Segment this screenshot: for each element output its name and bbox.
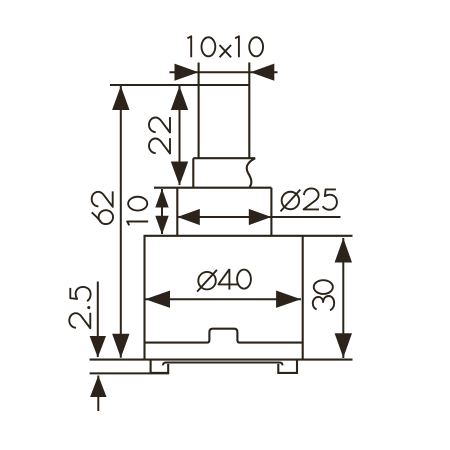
dimension 2.5: label: [69, 287, 90, 328]
dimension Ø25: label: [281, 188, 337, 211]
dimension 22: top arrowhead: [171, 86, 188, 110]
dimension Ø40: label: [197, 269, 251, 292]
bottom recess line with rounded ends: [163, 363, 283, 366]
dimension 2.5: lower arrowhead (pointing up): [90, 376, 106, 398]
dimension Ø40: dim line: [145, 298, 301, 300]
dimension 10x10: label: [187, 36, 263, 57]
dimension 30: dim line: [342, 238, 344, 358]
dimension 10: dim line: [161, 189, 163, 234]
Ø25 neck outline (top edge extended left as extension line): [154, 188, 271, 236]
dimension 10: label: [127, 197, 148, 226]
dimension 10x10: right arrowhead: [250, 64, 274, 81]
dimension 62: label: [92, 191, 113, 224]
dimension Ø25: left arrowhead: [177, 209, 200, 225]
break-line squiggle on collar right side: [247, 158, 255, 188]
dimension 62: bottom arrowhead: [112, 334, 129, 358]
dimension 30: label: [313, 280, 334, 310]
dimension 10: [127, 189, 169, 235]
dimension Ø25: right arrowhead: [249, 209, 271, 225]
dimension Ø40: [145, 269, 301, 308]
dimension 62: top arrowhead: [112, 86, 129, 110]
dimension 2.5: upper dim line: [97, 282, 99, 358]
bottom flange line with index tab: [145, 329, 303, 343]
dimension Ø25: [177, 188, 340, 225]
dimension 30: top arrowhead: [335, 238, 352, 263]
dimension 22: [149, 86, 188, 186]
left foot: [151, 360, 169, 373]
dimension 22: dim line: [179, 86, 181, 185]
dimension 22: bottom arrowhead: [171, 162, 188, 186]
dimension 2.5: upper arrowhead (pointing down): [90, 336, 106, 358]
right foot: [278, 360, 297, 373]
dimension 10: top arrowhead: [155, 189, 168, 208]
dimension Ø25: dim line: [177, 216, 340, 218]
base line (body bottom merged with left and right extension lines): [90, 359, 353, 361]
dimension 62: [92, 86, 130, 358]
dimension 10: bottom arrowhead: [155, 216, 168, 235]
feet bottom extension line: [90, 372, 169, 374]
dimension 62: dim line: [120, 86, 122, 358]
spline collar outline: [193, 158, 255, 188]
stem outline (10x10 square shaft, sides extended up as extension lines): [110, 63, 249, 159]
dimension 22: label: [149, 117, 170, 153]
dimension 2.5: lower dim line: [97, 376, 99, 412]
dimension 30: bottom arrowhead: [335, 333, 352, 358]
dimension 10x10: [170, 36, 278, 81]
dimension 2.5: [69, 282, 106, 412]
dimension 10x10: dim line: [170, 71, 278, 73]
dimension Ø40: right arrowhead: [276, 291, 301, 308]
body outline Ø40 (top edge merged with 30-dim top extension line): [144, 236, 353, 360]
dimension Ø40: left arrowhead: [145, 291, 170, 308]
dimension 10x10: left arrowhead: [175, 64, 199, 81]
dimension 30: [313, 238, 352, 358]
